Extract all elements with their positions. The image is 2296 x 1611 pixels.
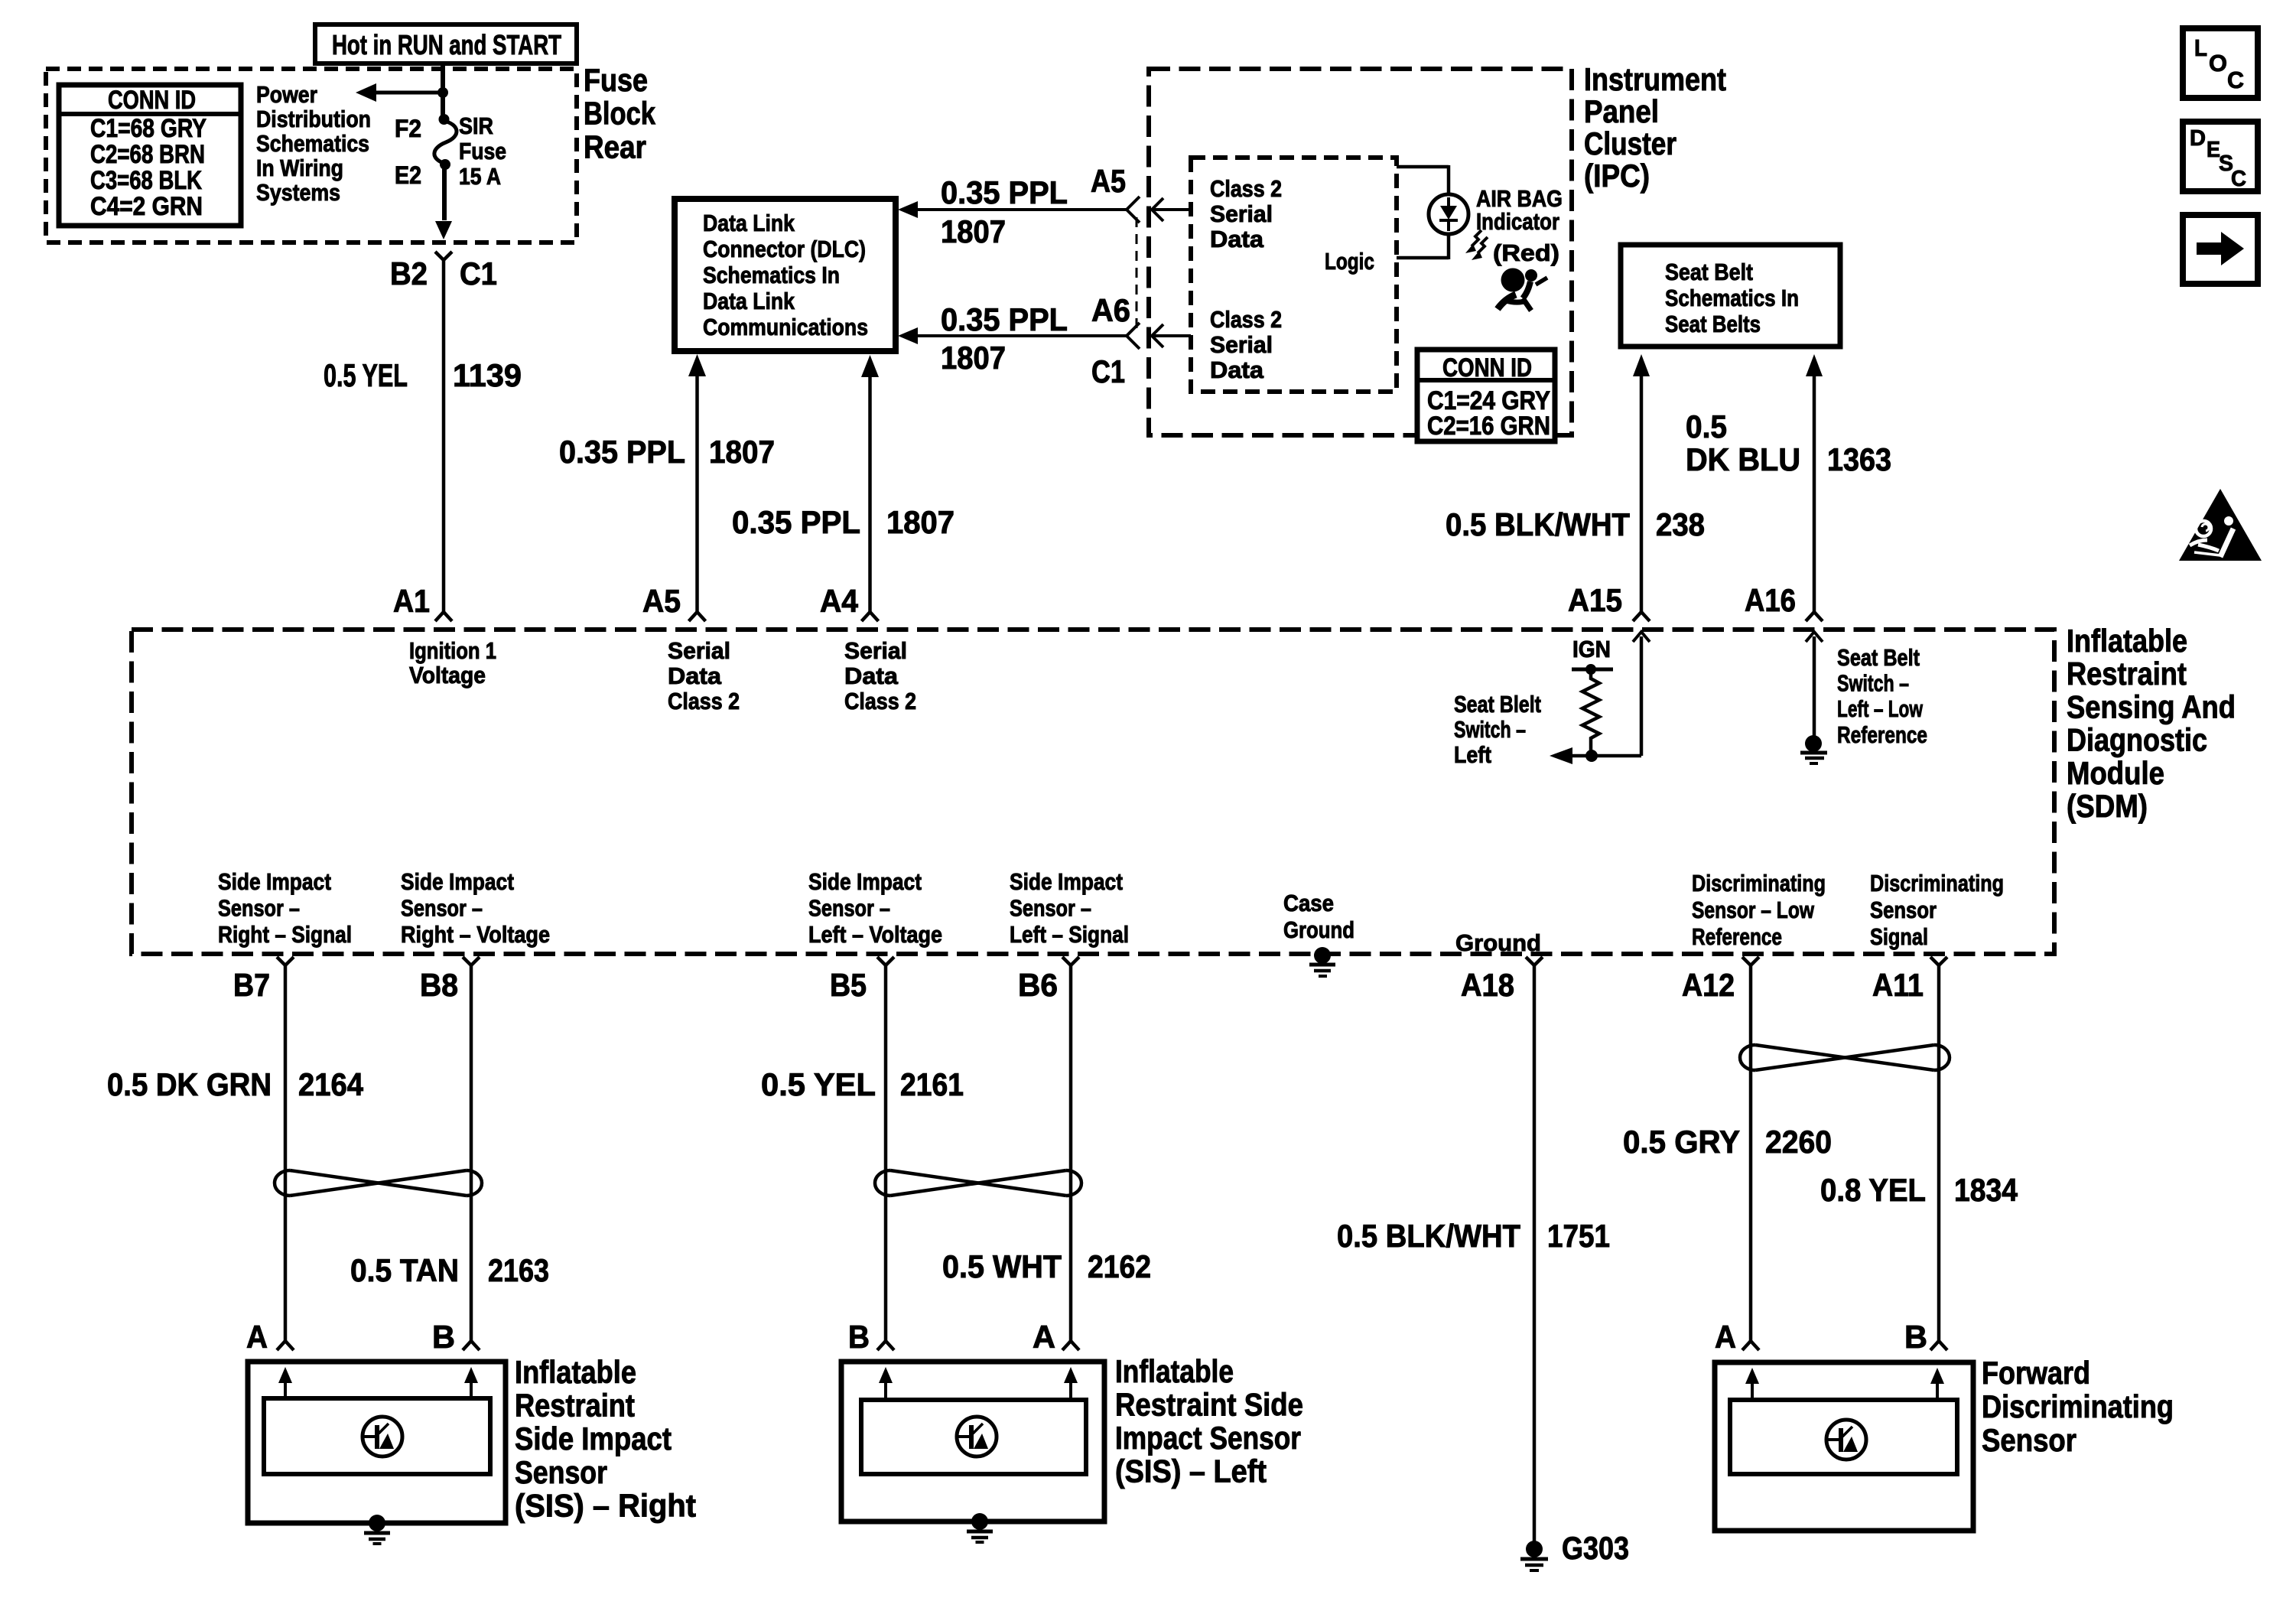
svg-text:Ground: Ground [1283,916,1355,943]
seat belt schematics box [1621,245,1840,347]
data link connector (DLC) box [675,199,896,351]
svg-text:B6: B6 [1018,967,1058,1003]
twisted pair (right SIS) [275,1170,290,1196]
svg-text:Side Impact: Side Impact [1010,868,1123,895]
junction node [437,87,448,98]
wire class 2 serial data to DLC (upper) [898,197,1140,223]
svg-text:A4: A4 [820,583,859,619]
svg-text:Serial: Serial [1210,331,1273,358]
wire label 0.5 DK GRN | 2164 [107,1066,364,1102]
connector pin A (SIS right) [277,1341,294,1350]
svg-text:0.5 GRY: 0.5 GRY [1623,1124,1740,1160]
resistor seat belt switch pull-up [1572,664,1613,762]
svg-text:1139: 1139 [453,357,522,393]
svg-text:Reference: Reference [1837,721,1927,748]
svg-text:B7: B7 [233,967,270,1003]
connector B2/C1 Y symbol [435,252,452,260]
connector pin A12 [1742,957,1759,965]
svg-text:Sensor –: Sensor – [808,895,890,922]
svg-text:Schematics In: Schematics In [1665,285,1799,311]
svg-text:A5: A5 [1091,163,1126,199]
connector pin A15 [1633,612,1650,621]
module title Inflatable Restraint Side Impact Sensor (SIS) - Left [1115,1353,1303,1489]
svg-text:Fuse: Fuse [584,62,648,98]
svg-text:Serial: Serial [668,637,730,664]
svg-text:Sensor – Low: Sensor – Low [1692,897,1815,923]
svg-text:Restraint Side: Restraint Side [1115,1387,1303,1423]
wire label 0.35 PPL / 1807 (lower horizontal) [941,301,1068,376]
svg-text:Class 2: Class 2 [1210,175,1282,202]
connector pin B (SIS left) [877,1341,894,1350]
svg-text:Schematics: Schematics [256,130,369,157]
svg-text:In Wiring: In Wiring [256,155,343,181]
svg-text:(IPC): (IPC) [1584,158,1650,194]
in-line connector dashed stub [1136,217,1138,329]
svg-text:B2: B2 [390,255,428,291]
svg-text:1363: 1363 [1827,441,1891,477]
svg-text:2260: 2260 [1765,1124,1832,1160]
svg-text:0.5 YEL: 0.5 YEL [324,357,408,393]
svg-text:Data Link: Data Link [703,210,795,236]
wire A4 serial data up to DLC [861,355,879,612]
connector pin B7 [277,957,294,965]
svg-text:E2: E2 [395,161,421,189]
connector pin A4 [862,612,879,621]
svg-text:Distribution: Distribution [256,106,371,132]
arrow into connector [435,221,452,239]
inflatable restraint side impact sensor (SIS) right [248,1362,506,1544]
fuse value label SIR Fuse 15 A [459,112,506,190]
svg-text:L: L [2194,34,2207,61]
svg-text:Side Impact: Side Impact [515,1421,672,1456]
wire label 0.5 YEL | 1139 [324,357,522,393]
connector pin B (SIS right) [463,1341,480,1350]
svg-text:Serial: Serial [1210,200,1273,227]
wire A16 internal to ground [1806,632,1823,737]
connector pin B8 [463,957,480,965]
svg-text:CONN ID: CONN ID [108,86,196,115]
svg-text:Data: Data [844,662,899,689]
svg-text:0.5 WHT: 0.5 WHT [942,1248,1062,1284]
indicator label AIR BAG Indicator (Red) [1476,185,1563,235]
wire label 0.8 YEL | 1834 [1820,1172,2018,1208]
svg-text:Ground: Ground [1455,929,1541,956]
module title Fuse Block Rear [584,62,656,164]
wire A11 [1937,965,1941,1341]
forward discriminating sensor [1715,1362,1973,1531]
svg-text:Seat Blelt: Seat Blelt [1454,691,1541,718]
pin function Discriminating Sensor Signal [1870,870,2004,950]
svg-text:Power: Power [256,81,317,108]
svg-text:C4=2 GRN: C4=2 GRN [90,192,203,221]
svg-text:0.8 YEL: 0.8 YEL [1820,1172,1926,1208]
module title Inflatable Restraint Sensing And Diagnostic Module (SDM) [2067,623,2236,824]
note power distribution schematics [256,81,371,206]
svg-text:Switch –: Switch – [1454,716,1526,743]
pin function Seat Belt Switch - Left - Low Reference [1837,644,1927,748]
svg-text:Diagnostic: Diagnostic [2067,722,2207,758]
ground (seat belt switch low reference) [1800,735,1827,763]
svg-text:O: O [2209,50,2227,76]
svg-text:Voltage: Voltage [409,662,486,688]
svg-text:C1: C1 [460,255,497,291]
svg-text:0.35 PPL: 0.35 PPL [732,504,860,540]
svg-text:Left – Voltage: Left – Voltage [808,921,942,948]
svg-text:Class 2: Class 2 [1210,306,1282,333]
svg-text:2161: 2161 [900,1066,964,1102]
svg-text:A18: A18 [1461,967,1514,1003]
svg-text:A11: A11 [1872,967,1924,1003]
wire label 0.5 TAN | 2163 [350,1252,549,1288]
svg-text:DK BLU: DK BLU [1686,441,1800,477]
svg-text:0.5 TAN: 0.5 TAN [350,1252,459,1288]
wire label 0.5 YEL | 2161 [761,1066,964,1102]
pin function Case Ground [1283,890,1355,943]
svg-text:0.5 BLK/WHT: 0.5 BLK/WHT [1337,1218,1520,1254]
connector pin A16 [1806,612,1823,621]
svg-text:2163: 2163 [488,1252,549,1288]
svg-text:A5: A5 [642,583,681,619]
svg-text:Seat Belt: Seat Belt [1665,259,1753,285]
twisted pair (left SIS) [875,1170,890,1196]
net label Class 2 Serial Data (upper) [1210,175,1282,252]
svg-text:Sensing And: Sensing And [2067,688,2236,724]
svg-text:Signal: Signal [1870,923,1928,950]
svg-text:(Red): (Red) [1493,239,1559,266]
arrow to seat belt switch left [1550,747,1641,764]
svg-text:D: D [2190,126,2206,151]
pin function Side Impact Sensor - Right - Voltage [401,868,550,948]
svg-text:238: 238 [1656,506,1705,542]
svg-text:G303: G303 [1562,1530,1629,1566]
pin function Serial Data Class 2 (A4) [844,637,916,714]
fuse block rear dashed enclosure [46,69,577,242]
svg-text:Class 2: Class 2 [668,688,740,714]
branch arrow to power distribution [356,83,443,102]
wire class 2 serial data to DLC (lower) [898,323,1140,349]
svg-text:2162: 2162 [1088,1248,1151,1284]
svg-text:A: A [1715,1319,1736,1355]
svg-text:Left – Low: Left – Low [1837,695,1924,722]
svg-text:(SIS) – Left: (SIS) – Left [1115,1453,1267,1489]
wire A18 ground run [1533,965,1537,1541]
svg-text:Panel: Panel [1584,93,1659,129]
svg-text:Sensor –: Sensor – [401,895,483,922]
svg-text:0.35 PPL: 0.35 PPL [941,301,1068,337]
svg-text:Sensor: Sensor [515,1454,607,1490]
svg-text:Class 2: Class 2 [844,688,916,714]
wire label 0.35 PPL | 1807 (A5 riser) [559,434,775,470]
svg-text:Data: Data [668,662,722,689]
connector pin A11 [1930,957,1947,965]
svg-text:Ignition 1: Ignition 1 [409,637,496,664]
svg-text:C: C [2231,167,2246,191]
svg-text:Cluster: Cluster [1584,125,1676,161]
inflatable restraint sensing and diagnostic module (SDM) dashed box [132,630,2054,954]
svg-text:C3=68 BLK: C3=68 BLK [90,166,202,195]
svg-text:B: B [848,1319,870,1355]
DESC icon box [2183,122,2258,191]
LED light rays [1465,230,1488,260]
svg-text:Restraint: Restraint [2067,656,2187,692]
module title Inflatable Restraint Side Impact Sensor (SIS) - Right [515,1354,696,1523]
svg-text:Inflatable: Inflatable [2067,623,2187,659]
wire B7 [284,965,288,1341]
connector pin B6 [1062,957,1079,965]
svg-text:Restraint: Restraint [515,1388,635,1424]
connector pin B5 [877,957,894,965]
svg-text:CONN ID: CONN ID [1442,353,1532,382]
IPC CONN ID table [1417,350,1555,441]
IPC boundary arrow (lower) [1152,324,1191,347]
switch label Seat Blelt Switch - Left [1454,691,1541,768]
svg-text:Discriminating: Discriminating [1692,870,1826,897]
svg-text:Serial: Serial [844,637,907,664]
svg-text:C1: C1 [1091,353,1125,389]
svg-text:Data: Data [1210,226,1264,252]
module title Forward Discriminating Sensor [1982,1355,2174,1458]
svg-text:0.5: 0.5 [1686,408,1727,444]
wire label 0.5 / DK BLU | 1363 [1686,408,1891,477]
module title Instrument Panel Cluster (IPC) [1584,61,1726,194]
svg-text:C: C [2227,67,2244,93]
svg-text:A12: A12 [1682,967,1735,1003]
class 2 logic dashed box [1191,158,1397,392]
svg-text:1807: 1807 [941,340,1006,376]
svg-text:Seat Belt: Seat Belt [1837,644,1920,671]
svg-text:A: A [246,1319,268,1355]
svg-text:C1=68 GRY: C1=68 GRY [90,114,207,143]
svg-text:1751: 1751 [1547,1218,1610,1254]
pin function Side Impact Sensor - Right - Signal [218,868,352,948]
LOC icon box [2183,28,2258,98]
svg-text:A1: A1 [393,583,430,619]
wire A12 [1749,965,1753,1341]
wire label 0.35 PPL / 1807 (upper horizontal) [941,174,1068,249]
wire logic box to air bag indicator [1397,165,1449,259]
svg-text:Instrument: Instrument [1584,61,1726,97]
svg-text:0.5 YEL: 0.5 YEL [761,1066,876,1102]
svg-text:0.35 PPL: 0.35 PPL [559,434,685,470]
SIR warning triangle [2179,489,2262,561]
pin function Serial Data Class 2 (A5) [668,637,740,714]
inflatable restraint side impact sensor (SIS) left [841,1362,1104,1542]
svg-text:Discriminating: Discriminating [1870,870,2004,897]
svg-text:Communications: Communications [703,314,868,340]
svg-text:Module: Module [2067,755,2164,791]
wire fuse to connector B2/C1 [442,169,447,220]
pin function Discriminating Sensor - Low Reference [1692,870,1826,950]
svg-text:SIR: SIR [459,112,493,139]
svg-text:Case: Case [1283,890,1334,916]
pin function Side Impact Sensor - Left - Signal [1010,868,1129,948]
svg-text:A16: A16 [1745,582,1796,618]
wire B8 [470,965,473,1341]
wire A15 riser 0.5 BLK/WHT 238 [1633,354,1650,612]
connector pin A18 [1526,957,1543,965]
svg-text:15 A: 15 A [459,163,501,190]
connector pin A (SIS left) [1062,1341,1079,1350]
svg-text:0.5 BLK/WHT: 0.5 BLK/WHT [1446,506,1630,542]
svg-text:Logic: Logic [1325,248,1374,275]
svg-text:Inflatable: Inflatable [1115,1353,1234,1389]
IPC boundary arrow (upper) [1152,198,1191,221]
svg-text:Side Impact: Side Impact [808,868,922,895]
svg-text:Data Link: Data Link [703,288,795,314]
svg-text:Sensor –: Sensor – [218,895,300,922]
air bag indicator LED U1 [1429,194,1468,234]
svg-text:Data: Data [1210,356,1264,383]
svg-text:(SDM): (SDM) [2067,788,2148,824]
svg-text:Indicator: Indicator [1476,208,1559,235]
svg-text:Discriminating: Discriminating [1982,1388,2174,1424]
svg-text:Rear: Rear [584,129,646,164]
wire label 0.5 BLK/WHT | 238 [1446,506,1705,542]
svg-text:0.35 PPL: 0.35 PPL [941,174,1068,210]
svg-text:Seat Belts: Seat Belts [1665,311,1761,337]
case ground [1309,947,1335,976]
svg-text:Hot in RUN and START: Hot in RUN and START [332,29,561,60]
wire B6 [1069,965,1073,1341]
svg-text:Systems: Systems [256,179,340,206]
twisted pair (forward discriminating sensor) [1740,1045,1755,1070]
wire A16 riser 0.5 DK BLU 1363 [1806,354,1823,612]
svg-text:A15: A15 [1568,582,1622,618]
svg-text:Connector (DLC): Connector (DLC) [703,236,866,262]
fuse F2/E2 SIR 15A [434,114,457,170]
svg-text:Sensor: Sensor [1982,1422,2076,1458]
svg-text:Forward: Forward [1982,1355,2090,1391]
svg-text:Block: Block [584,96,656,132]
power feed header box "Hot in RUN and START" [315,24,577,63]
svg-text:2164: 2164 [298,1066,364,1102]
wire label 0.5 BLK/WHT | 1751 [1337,1218,1610,1254]
next-page arrow icon box [2183,215,2258,284]
svg-text:Fuse: Fuse [459,138,506,164]
svg-text:Right – Signal: Right – Signal [218,921,352,948]
wire 0.5 YEL 1139 down to SDM A1 [442,260,446,612]
svg-text:Inflatable: Inflatable [515,1354,636,1390]
connector pin A (FDS) [1742,1341,1759,1350]
wire label 0.5 WHT | 2162 [942,1248,1151,1284]
svg-text:A: A [1033,1319,1055,1355]
svg-text:(SIS) – Right: (SIS) – Right [515,1487,696,1523]
svg-text:Sensor: Sensor [1870,897,1937,923]
wire B5 [884,965,888,1341]
svg-text:Left: Left [1454,741,1491,768]
pin function Side Impact Sensor - Left - Voltage [808,868,942,948]
connector pin A5 [689,612,706,621]
wire A5 serial data up to DLC [688,354,706,612]
connector pin B (FDS) [1930,1341,1947,1350]
svg-text:0.5 DK GRN: 0.5 DK GRN [107,1066,272,1102]
pin function Ignition 1 Voltage [409,637,496,688]
svg-text:Right – Voltage: Right – Voltage [401,921,550,948]
svg-text:Sensor –: Sensor – [1010,895,1091,922]
wire A15 internal [1633,632,1650,756]
svg-text:1807: 1807 [941,213,1006,249]
wire label 0.35 PPL | 1807 (A4 riser) [732,504,954,540]
svg-text:1807: 1807 [709,434,775,470]
fuse block CONN ID table [59,85,241,226]
svg-text:1807: 1807 [886,504,954,540]
svg-text:Switch –: Switch – [1837,670,1909,697]
airbag occupant pictogram [1498,268,1547,311]
svg-text:Schematics In: Schematics In [703,262,840,288]
instrument panel cluster (IPC) dashed box [1149,69,1572,435]
svg-text:Reference: Reference [1692,923,1782,950]
svg-text:IGN: IGN [1572,636,1611,662]
svg-text:C2=68 BRN: C2=68 BRN [90,140,205,169]
svg-text:Impact Sensor: Impact Sensor [1115,1420,1301,1456]
svg-text:B: B [1904,1319,1927,1355]
svg-text:B8: B8 [420,967,458,1003]
wire from hot box down [441,63,445,116]
connector pin A1 [435,612,452,621]
svg-text:1834: 1834 [1954,1172,2018,1208]
svg-text:B: B [432,1319,455,1355]
svg-text:A6: A6 [1091,292,1130,328]
svg-text:Side Impact: Side Impact [218,868,331,895]
svg-text:F2: F2 [395,115,421,142]
wire label 0.5 GRY | 2260 [1623,1124,1832,1160]
ground G303 [1520,1541,1548,1570]
svg-text:Side Impact: Side Impact [401,868,514,895]
svg-text:C2=16 GRN: C2=16 GRN [1427,412,1550,441]
svg-text:B5: B5 [830,967,867,1003]
svg-text:Left – Signal: Left – Signal [1010,921,1129,948]
net label Class 2 Serial Data (lower) [1210,306,1282,383]
